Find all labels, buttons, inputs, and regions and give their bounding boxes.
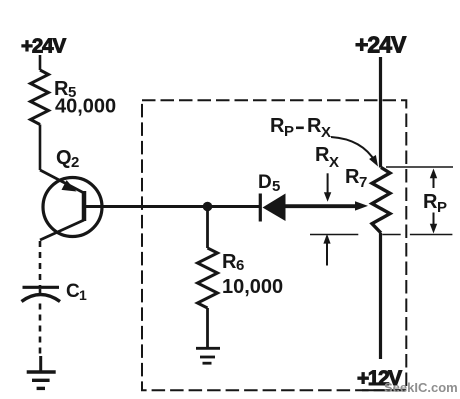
label R6 (222, 251, 244, 274)
capacitor C1 top plate (23, 286, 60, 289)
ground (below C1) (27, 372, 56, 388)
label R7 (345, 166, 367, 191)
svg-text:R: R (315, 144, 330, 166)
svg-text:10,000: 10,000 (222, 276, 283, 298)
Rx dimension down arrow (327, 173, 329, 194)
svg-text:R: R (423, 191, 438, 213)
label Q2 (56, 147, 79, 171)
wire into ground (39, 356, 42, 371)
Rx dimension up arrow (326, 243, 328, 266)
wire from +24V to R5 (39, 55, 42, 70)
value 40,000 (55, 96, 116, 118)
label Rx (315, 144, 339, 171)
potentiometer R7 (372, 167, 390, 233)
diode D5 triangle (263, 194, 286, 222)
wire +24V down to R7 (379, 57, 382, 168)
node junction dot (203, 202, 213, 212)
svg-text:X: X (329, 154, 339, 171)
wire junction to R6 (206, 207, 209, 249)
label C1 (66, 281, 87, 303)
svg-text:6: 6 (236, 257, 244, 274)
svg-text:7: 7 (359, 174, 367, 191)
resistor R6 (198, 248, 218, 308)
label Rp - Rx (270, 115, 294, 140)
svg-text:2: 2 (71, 154, 79, 171)
dashed wire C1 to ground (39, 304, 42, 358)
collector dashed wire to C1 (39, 241, 42, 286)
Rp dimension lower arrow (433, 213, 435, 226)
svg-text:P: P (284, 123, 294, 140)
transistor Q2 collector line (40, 220, 84, 240)
wiper arrowhead (355, 201, 368, 210)
transistor Q2 circle (43, 178, 102, 237)
capacitor C1 curved plate (22, 295, 61, 302)
svg-text:SeekIC.com: SeekIC.com (384, 380, 458, 395)
watermark SeekIC.com (384, 380, 458, 395)
wire diode to potentiometer wiper (286, 204, 358, 208)
dimension line top (Rp upper bound) (386, 166, 453, 168)
svg-text:R: R (222, 251, 237, 273)
transistor Q2 emitter arrow (62, 180, 77, 191)
wire R6 to ground (206, 308, 209, 348)
capacitor C1 dash between plates (39, 289, 42, 294)
ground (below R6) (196, 348, 220, 363)
resistor R5 (31, 70, 49, 125)
svg-text:R: R (345, 166, 360, 188)
svg-text:40,000: 40,000 (55, 96, 116, 118)
transistor Q2 emitter line (40, 170, 84, 193)
curved leader arrow to top of R7 (331, 137, 376, 162)
dimension line bottom (Rp lower bound) (310, 234, 358, 236)
wire R7 down to +12V (379, 233, 382, 359)
enclosure bottom edge long dash under +12V (362, 389, 406, 391)
svg-text:+24V: +24V (355, 32, 407, 58)
svg-text:R: R (307, 115, 322, 137)
wire R5 to transistor emitter (39, 125, 42, 171)
label Rp (423, 191, 447, 216)
label D5 (258, 172, 280, 195)
value 10,000 (222, 276, 283, 298)
svg-text:1: 1 (79, 287, 87, 303)
svg-text:P: P (437, 199, 447, 216)
wire base to diode (main horizontal) (84, 205, 260, 208)
dashed enclosure box (142, 100, 406, 390)
svg-text:Q: Q (56, 147, 72, 169)
svg-text:5: 5 (272, 178, 280, 195)
svg-text:X: X (321, 124, 331, 141)
transistor Q2 base bar (82, 191, 87, 221)
svg-text:R: R (270, 115, 285, 137)
diode D5 cathode bar (259, 194, 262, 222)
svg-text:+24V: +24V (21, 34, 66, 57)
svg-text:C: C (66, 281, 80, 302)
svg-text:D: D (258, 172, 272, 193)
label R5 (54, 78, 76, 101)
Rp dimension upper arrow (433, 176, 435, 188)
